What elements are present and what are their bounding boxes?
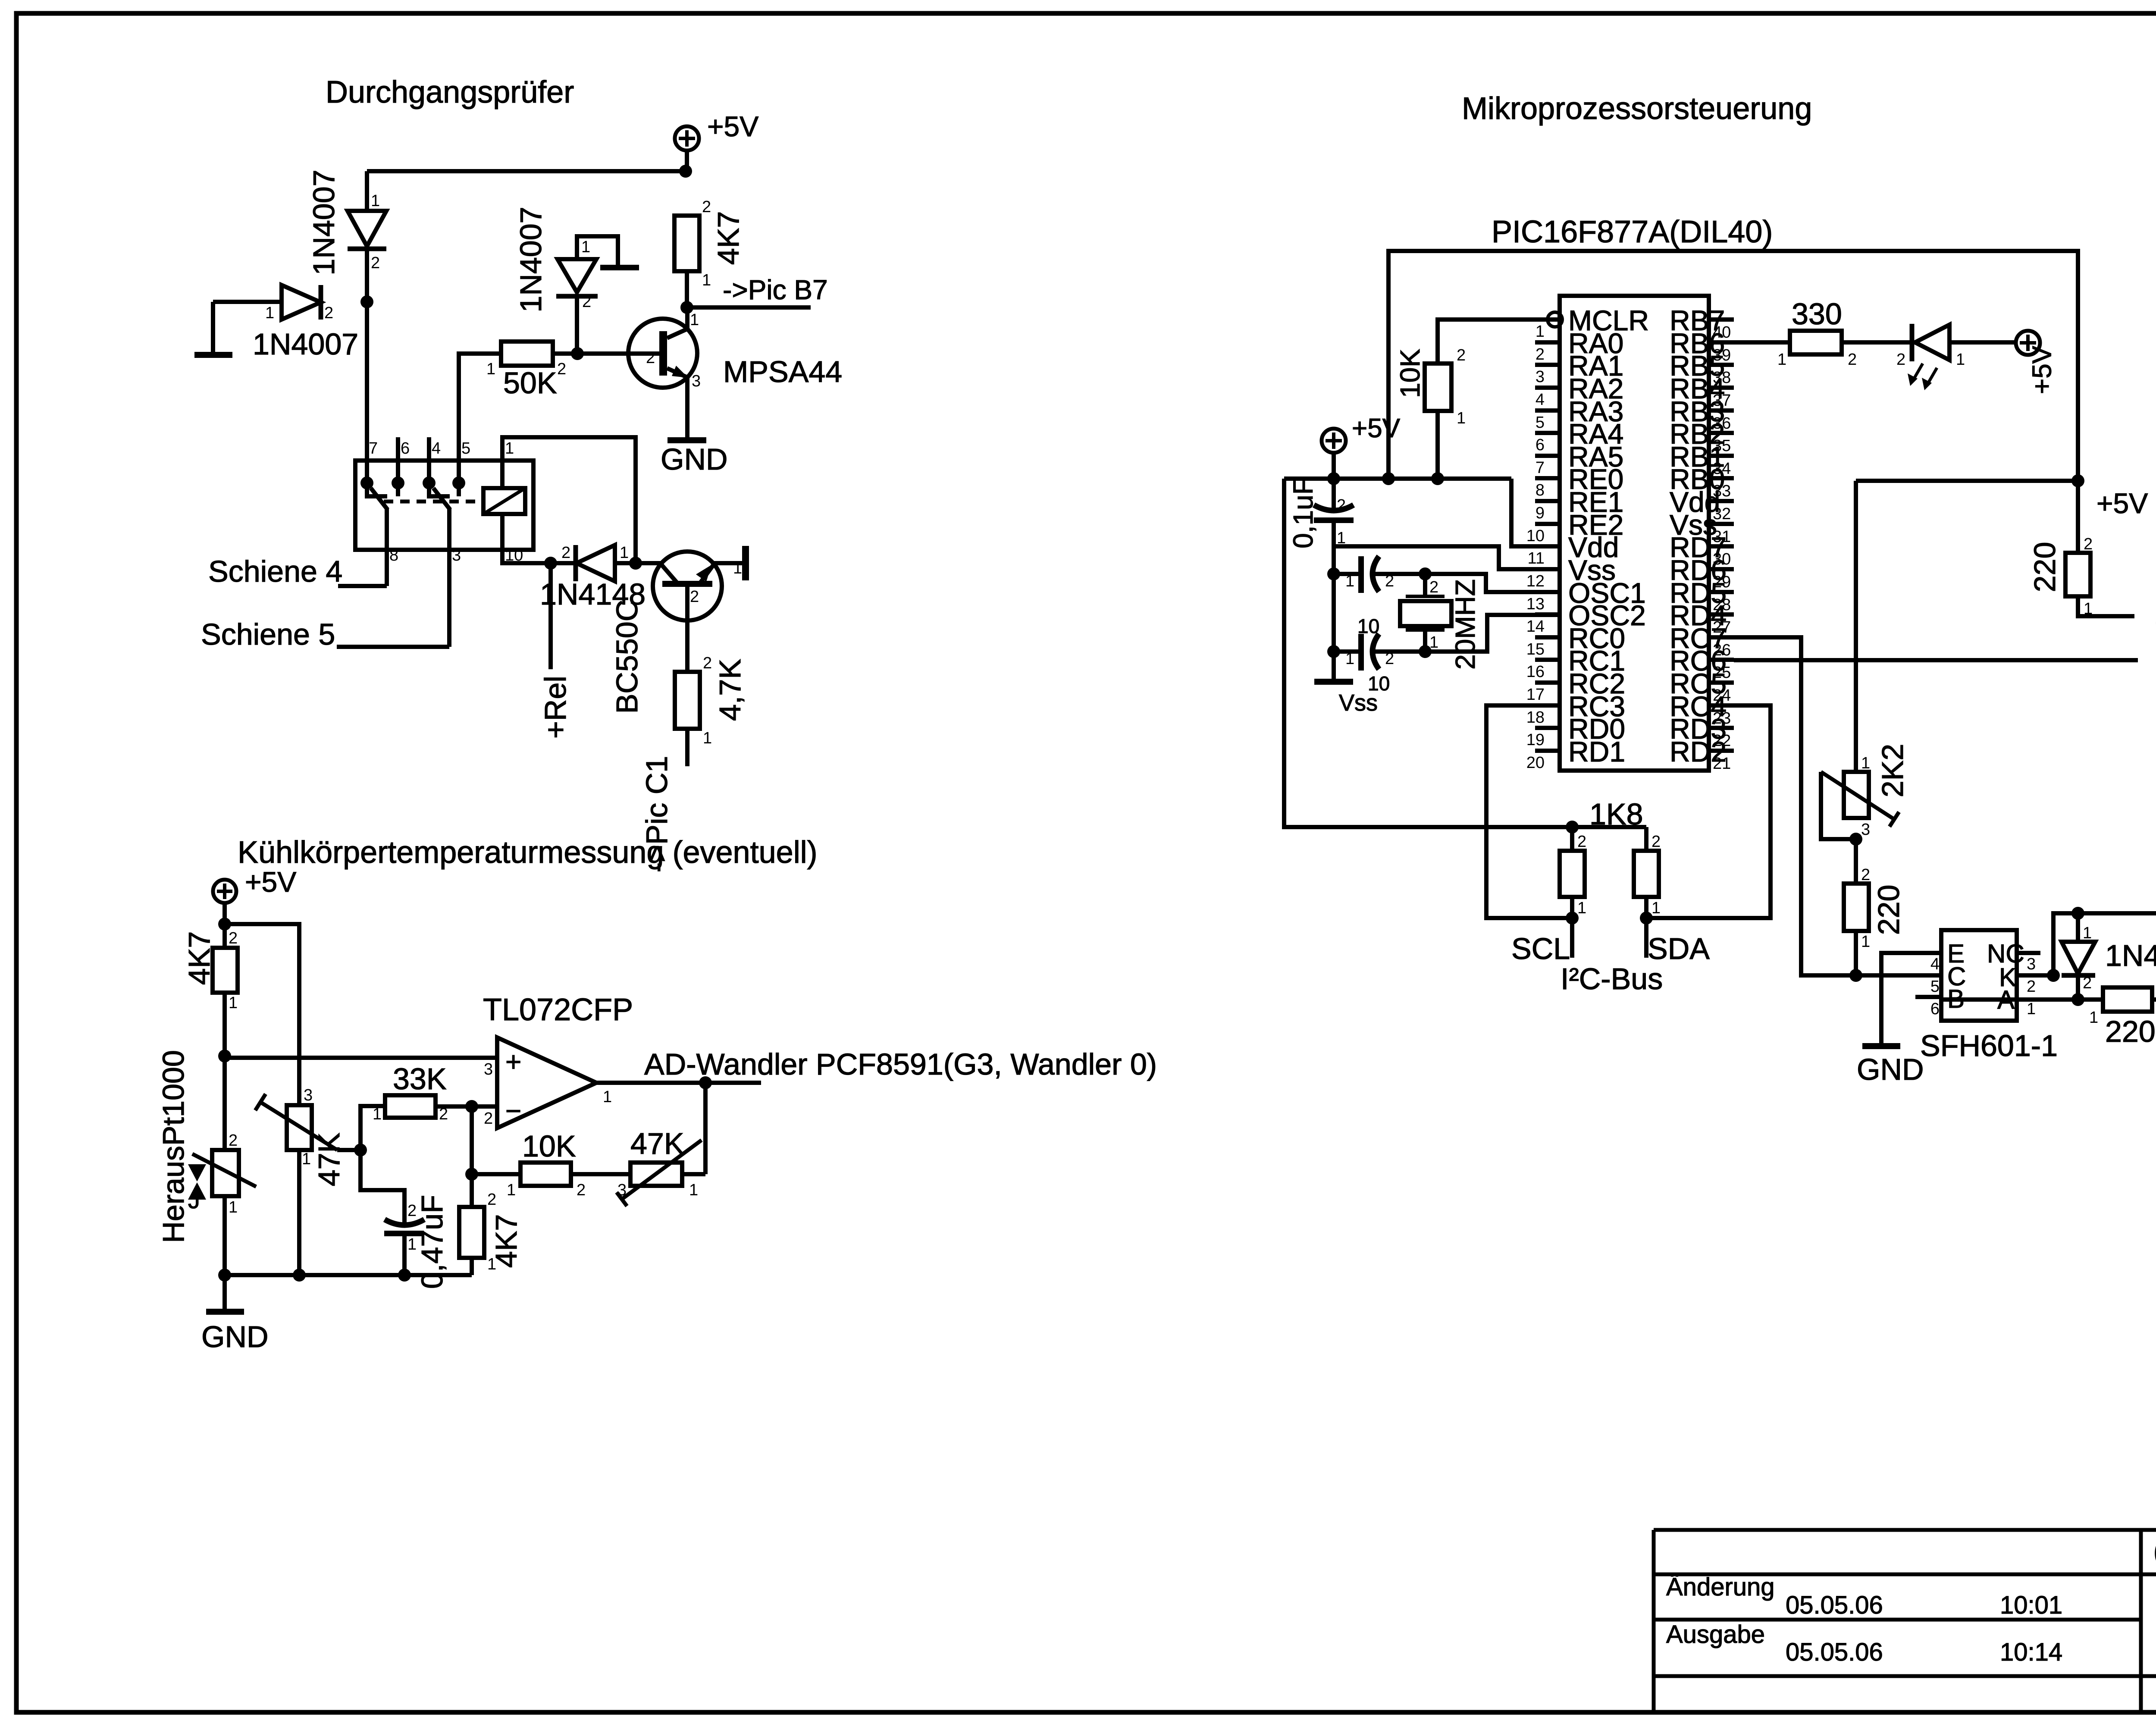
svg-text:1: 1 [690, 311, 699, 329]
title block date1 [1786, 1591, 2062, 1619]
relay pin10 wire [502, 514, 551, 563]
svg-text:0,47uF: 0,47uF [415, 1195, 449, 1289]
svg-text:1: 1 [505, 439, 514, 458]
section title Kuehlkoerpertemperaturmessung [238, 835, 818, 870]
wire RC4 to SDA [1646, 705, 1771, 918]
svg-text:5: 5 [461, 439, 470, 458]
label D4 1N4148 [540, 577, 646, 611]
svg-text:1: 1 [2027, 1000, 2036, 1018]
label 4 (midi out) [2156, 602, 2156, 635]
label R13 220 [2105, 1015, 2156, 1048]
svg-text:1N4007: 1N4007 [253, 327, 358, 361]
label R11 220 [2028, 542, 2062, 592]
svg-text:Vss: Vss [1339, 690, 1378, 716]
svg-text:10:14: 10:14 [2000, 1638, 2062, 1666]
svg-text:1K8: 1K8 [1589, 797, 1643, 831]
wire Schiene 4 [338, 584, 387, 588]
svg-text:1: 1 [1345, 650, 1354, 668]
svg-text:GND: GND [1857, 1053, 1924, 1086]
wire R12 to node [1854, 931, 1858, 975]
label R4 4K7 [182, 931, 216, 985]
transistor Q2 BC550C [653, 552, 742, 621]
svg-text:MPSA44: MPSA44 [723, 355, 842, 389]
svg-text:Schiene 5: Schiene 5 [201, 617, 335, 651]
svg-text:+5V: +5V [707, 110, 758, 142]
wire D4 cathode [551, 561, 576, 565]
power +5V symbol (PIC) [1322, 414, 1401, 453]
relay box [355, 461, 533, 550]
svg-text:2: 2 [703, 654, 712, 672]
svg-text:330: 330 [1792, 297, 1842, 331]
label Vss [1339, 690, 1378, 716]
label SCL [1511, 932, 1570, 965]
svg-text:3: 3 [692, 372, 701, 390]
svg-text:RD2: RD2 [1670, 736, 1727, 768]
wire MCLR [1438, 320, 1548, 364]
title block Ausgabe [1666, 1620, 1765, 1649]
resistor 1K8 (R8 SCL) [1560, 827, 1586, 917]
svg-text:4K7: 4K7 [711, 211, 745, 265]
svg-text:I²C-Bus: I²C-Bus [1561, 962, 1663, 996]
relay pin6 stub [396, 437, 400, 496]
label +Rel [539, 676, 572, 739]
node P1 wiper [354, 1144, 367, 1156]
svg-text:SFH601-1: SFH601-1 [1920, 1029, 2058, 1062]
wire 2K2 from +5V [1854, 481, 1858, 772]
svg-text:1: 1 [1861, 933, 1870, 951]
svg-text:1: 1 [2083, 924, 2092, 942]
U3 labels NC K A [1987, 939, 2024, 1014]
transistor Q1 MPSA44 [628, 311, 701, 390]
svg-text:3: 3 [452, 546, 461, 564]
node crystal top [1419, 567, 1432, 580]
svg-text:2: 2 [2084, 535, 2093, 553]
wire rail to Vdd [1511, 479, 1560, 546]
label 5 (midi out) [2156, 658, 2156, 691]
label ->Pic B7 [723, 274, 828, 305]
label ->Pic C1 [640, 756, 674, 872]
wire RC6 Midi5 [1734, 658, 2138, 662]
wire node to relay pin7 [365, 302, 369, 483]
label GND (Q1) [661, 442, 728, 476]
svg-text:5: 5 [1930, 978, 1940, 996]
node 2K2/220 [1849, 833, 1862, 846]
svg-text:20MHZ: 20MHZ [1450, 579, 1481, 670]
svg-text:33K: 33K [393, 1062, 447, 1096]
node SCL top [1566, 821, 1579, 834]
wire +5V branch [1856, 479, 2078, 483]
svg-text:1: 1 [507, 1181, 516, 1199]
wire P2 to output [682, 1172, 705, 1176]
svg-text:Schiene 4: Schiene 4 [208, 555, 342, 588]
title block grid [1654, 1530, 2156, 1713]
resistor 4K7 (R4) [213, 929, 238, 1012]
power +5V symbol (Kuehlkoerper) [213, 866, 296, 903]
label 33K [393, 1062, 447, 1096]
svg-text:1: 1 [486, 360, 495, 378]
label U1 TL072CFP [483, 993, 633, 1027]
label R5 10K [522, 1129, 576, 1163]
wire RB6 to R10 [1734, 340, 1790, 345]
capacitor 10 (C4) [1334, 634, 1394, 671]
wire RC3 to SCL [1486, 705, 1572, 918]
svg-text:1: 1 [229, 1198, 238, 1216]
resistor 10K (R7) [1425, 346, 1466, 427]
wire to diode D1 [365, 171, 369, 211]
potentiometer 2K2 (P3) [1821, 754, 1899, 839]
wire node to thermistor [222, 1056, 227, 1150]
label GND (Kuehlkoerper) [201, 1320, 269, 1354]
wire SDA [1644, 897, 1648, 958]
svg-text:1N4007: 1N4007 [307, 169, 341, 275]
svg-text:4: 4 [432, 439, 441, 458]
potentiometer 47K (P2) [617, 1140, 702, 1206]
label R10 330 [1792, 297, 1842, 331]
svg-text:47K: 47K [630, 1127, 684, 1160]
svg-text:2: 2 [1337, 496, 1346, 514]
relay switch 2 to Schiene 5 [447, 509, 451, 647]
label D5 1N4148 [2105, 939, 2156, 972]
svg-text:2: 2 [1457, 346, 1466, 364]
svg-text:2: 2 [371, 254, 380, 272]
svg-text:3: 3 [617, 1181, 627, 1199]
svg-text:18: 18 [1526, 708, 1545, 727]
wire Schiene 5 [337, 645, 449, 649]
node -input [465, 1100, 478, 1113]
wire C4 to crystal node [1375, 649, 1425, 654]
ground bar Vss [1314, 679, 1353, 685]
svg-text:2: 2 [1848, 351, 1857, 369]
svg-text:05.05.06: 05.05.06 [1786, 1638, 1883, 1666]
label D3 1N4007 [514, 207, 548, 312]
node cap gnd [398, 1269, 411, 1282]
svg-text:2: 2 [1577, 833, 1586, 851]
svg-text:1: 1 [1956, 351, 1965, 369]
relay switch 2 [429, 483, 450, 510]
svg-text:4: 4 [1930, 955, 1940, 973]
svg-text:13: 13 [1526, 595, 1545, 613]
svg-text:SDA: SDA [1648, 932, 1710, 965]
svg-text:1: 1 [1777, 351, 1786, 369]
relay pin1 wire [502, 437, 636, 563]
svg-text:GND: GND [201, 1320, 269, 1354]
title block Aenderung [1666, 1573, 1775, 1601]
node SDA [1640, 912, 1653, 925]
wire D3 top to chassis [577, 236, 618, 266]
wire 50K left to relay pin5 [459, 354, 501, 483]
wire +Rel [548, 563, 553, 669]
label P2 47K [630, 1127, 684, 1160]
resistor 50K [486, 342, 566, 378]
svg-text:7: 7 [1536, 459, 1545, 477]
wire +5V to rail [1332, 453, 1336, 479]
resistor 220 (R12) [1844, 866, 1870, 951]
svg-text:2: 2 [2083, 974, 2092, 992]
wire cap to Vss wire [1332, 523, 1336, 574]
wire opto E to GND [1881, 953, 1941, 1044]
svg-text:1: 1 [689, 1181, 698, 1199]
svg-text:2: 2 [690, 588, 699, 606]
node diode junction [360, 295, 373, 308]
relay switch 1 [367, 483, 388, 510]
svg-text:47K: 47K [312, 1133, 346, 1187]
relay pin labels [369, 439, 523, 564]
relay pin4 node [423, 476, 436, 489]
wire top rail [367, 169, 687, 173]
wire opto A to R13 [1941, 997, 2103, 1002]
op-amp U1 TL072CFP [484, 1037, 612, 1128]
title block Controler/sonst. [2154, 1533, 2156, 1574]
resistor 4,7K (R3) [675, 654, 712, 747]
LED D6 [1896, 324, 1965, 369]
svg-text:Durchgangsprüfer: Durchgangsprüfer [326, 75, 574, 110]
svg-text:6: 6 [1536, 436, 1545, 454]
wire Vss to bar [1332, 652, 1336, 680]
label Schiene 4 [208, 555, 342, 588]
svg-text:Ausgabe: Ausgabe [1666, 1620, 1765, 1649]
svg-text:+5V: +5V [1352, 414, 1401, 443]
svg-text:AD-Wandler PCF8591(G3, Wandler: AD-Wandler PCF8591(G3, Wandler 0) [644, 1047, 1157, 1081]
svg-text:15: 15 [1526, 640, 1545, 658]
resistor 220 (R11) [2065, 535, 2093, 618]
svg-text:1: 1 [302, 1150, 311, 1168]
wire R1 to node B7 [685, 271, 689, 307]
label 50K [503, 366, 557, 400]
diode D3 1N4007 (vertical) [556, 238, 598, 311]
IC U2 left pin labels [1568, 304, 1649, 768]
title block date2 [1786, 1638, 2062, 1666]
diode D5 1N4148 [2062, 913, 2095, 1000]
wire node to cap [360, 1150, 404, 1227]
resistor 1K8 (R9 SDA) [1634, 827, 1661, 917]
wire opto K [2017, 973, 2053, 978]
node +5V rail [1327, 472, 1340, 485]
wire D4 anode [615, 561, 661, 565]
node P1 gnd [293, 1269, 306, 1282]
wire Q2 emitter to terminal [713, 561, 742, 565]
node feedback left [465, 1168, 478, 1181]
wire D1 to node [365, 249, 369, 302]
wire 10K to 47K pot [571, 1172, 630, 1176]
label R12 220 [1872, 885, 1905, 935]
wire -input to feedback [470, 1106, 474, 1207]
resistor 4K7 (R6) [459, 1191, 496, 1273]
wire SCL [1570, 897, 1574, 958]
node +input [218, 1050, 231, 1062]
wire gnd rail [225, 1273, 472, 1277]
svg-text:BC550C: BC550C [610, 600, 644, 714]
node SCL [1566, 912, 1579, 925]
svg-text:Controler/sonst.: Controler/sonst. [2154, 1533, 2156, 1574]
diode D2 1N4007 (horizontal) [265, 285, 333, 322]
svg-text:4,7K: 4,7K [713, 659, 747, 721]
svg-text:05.05.06: 05.05.06 [1786, 1591, 1883, 1619]
svg-text:+5V: +5V [2027, 345, 2057, 394]
wire gnd stem [222, 1275, 227, 1310]
svg-text:2: 2 [577, 1181, 586, 1199]
svg-text:1: 1 [2089, 1009, 2098, 1027]
thermistor HerausPt1000 [192, 1131, 256, 1216]
label +5V (midi) [2096, 487, 2148, 519]
label R1 4K7 [711, 211, 745, 265]
relay dashed link [384, 500, 483, 504]
svg-text:220: 220 [2105, 1015, 2156, 1048]
ground bar (Q1) [667, 437, 706, 443]
crystal Q3 20MHZ [1400, 574, 1451, 652]
IC U2 PIC16F877A box [1560, 296, 1709, 771]
svg-text:3: 3 [1536, 368, 1545, 386]
label R3 4,7K [713, 659, 747, 721]
wire 50K to base [553, 351, 659, 356]
relay switch 1 to Schiene 4 [385, 509, 389, 586]
svg-text:PIC16F877A(DIL40): PIC16F877A(DIL40) [1492, 215, 1773, 249]
svg-text:2: 2 [702, 198, 711, 216]
wire feedback down [703, 1083, 708, 1174]
label P1 47K [312, 1133, 346, 1187]
svg-text:+5V: +5V [2096, 487, 2148, 519]
node +5V branch [218, 918, 231, 931]
svg-text:SCL: SCL [1511, 932, 1570, 965]
svg-text:1: 1 [265, 304, 274, 322]
svg-text:2: 2 [1651, 833, 1661, 851]
svg-text:1: 1 [373, 1105, 382, 1123]
wire opto NC stub [2017, 951, 2040, 955]
label GND (opto) [1857, 1053, 1924, 1086]
svg-text:1: 1 [1861, 754, 1870, 772]
wire OSC1 [1425, 574, 1560, 592]
diode D1 1N4007 (vertical) [348, 192, 386, 272]
label D2 1N4007 [253, 327, 358, 361]
label Q3 20MHZ [1450, 579, 1481, 670]
svg-text:+5V: +5V [245, 866, 296, 898]
wire Q1 collector [685, 307, 689, 329]
label U3 SFH601-1 [1920, 1029, 2058, 1062]
wire to 10K [472, 1172, 520, 1176]
svg-text:1: 1 [703, 729, 712, 747]
svg-text:10K: 10K [522, 1129, 576, 1163]
wire branch to 47K pot [225, 924, 299, 1105]
svg-text:Änderung: Änderung [1666, 1573, 1775, 1601]
label R7 10K [1395, 349, 1426, 398]
svg-text:HerausPt1000: HerausPt1000 [157, 1050, 190, 1243]
wire top loop [1388, 251, 2078, 481]
label 1K8 [1589, 797, 1643, 831]
svg-text:17: 17 [1526, 686, 1545, 704]
resistor 4K7 (R1) [674, 198, 711, 289]
svg-text:2: 2 [557, 360, 566, 378]
wire D2 anode to ground [211, 302, 215, 353]
junction top rail [679, 165, 692, 178]
node +5V midi [2071, 474, 2084, 487]
thermistor arrows J [188, 1164, 206, 1213]
svg-text:8: 8 [389, 546, 398, 564]
svg-text:1: 1 [581, 238, 590, 256]
relay pin5 node [452, 476, 465, 489]
svg-text:8: 8 [1536, 481, 1545, 499]
section title Mikroprozessorsteuerung [1462, 91, 1812, 126]
capacitor 0,47uF [384, 1202, 424, 1254]
IC U2 pin numbers [1526, 323, 1731, 773]
svg-text:3: 3 [1861, 821, 1870, 839]
svg-text:1: 1 [603, 1088, 612, 1106]
wire thermistor to gnd rail [222, 1196, 227, 1275]
wire node to 33K [360, 1106, 385, 1150]
node base/diode3 [571, 347, 584, 360]
svg-text:2: 2 [1861, 866, 1870, 884]
svg-text:9: 9 [1536, 504, 1545, 522]
wire R7 to rail [1435, 411, 1440, 479]
wire opto C pin [1856, 973, 1941, 978]
IC U2 pin stubs [1535, 320, 1734, 751]
label R6 4K7 [489, 1214, 523, 1268]
svg-text:3: 3 [304, 1086, 313, 1104]
svg-text:0,1uF: 0,1uF [1288, 478, 1319, 548]
wire R11 to Midi4 [2078, 596, 2134, 616]
svg-text:6: 6 [401, 439, 410, 458]
wire R13 to Midi4 [2152, 997, 2156, 1002]
resistor 330 (R10) [1777, 331, 1857, 369]
label C3 10 [1357, 615, 1379, 637]
svg-text:4K7: 4K7 [489, 1214, 523, 1268]
U3 pin numbers [1930, 955, 2036, 1018]
svg-text:2: 2 [1429, 578, 1438, 596]
wire cap rows vertical [1332, 574, 1336, 652]
capacitor 0,1uF [1314, 479, 1354, 547]
svg-text:10: 10 [505, 546, 523, 564]
svg-text:2: 2 [646, 349, 655, 367]
relay pin7 node [360, 476, 373, 489]
node ->Pic B7 [680, 301, 693, 314]
svg-text:10:01: 10:01 [2000, 1591, 2062, 1619]
svg-text:2: 2 [229, 929, 238, 947]
power +5V symbol (Durchgangspruefer) [675, 110, 758, 150]
svg-text:3: 3 [484, 1060, 493, 1078]
label SDA [1648, 932, 1710, 965]
svg-text:TL072CFP: TL072CFP [483, 993, 633, 1027]
U3 labels E C B [1947, 939, 1966, 1013]
svg-text:2: 2 [487, 1191, 496, 1209]
ground bar (D3) [600, 265, 639, 270]
svg-text:2: 2 [561, 544, 570, 562]
node cap1 row [1327, 567, 1340, 580]
node cap2 row [1327, 645, 1340, 658]
svg-text:1: 1 [702, 271, 711, 289]
svg-text:+Rel: +Rel [539, 676, 572, 739]
wire R6 to gnd rail [470, 1258, 474, 1275]
wire opto B stub [1915, 995, 1941, 999]
optocoupler U3 SFH601-1 box [1941, 930, 2017, 1021]
svg-text:1: 1 [371, 192, 380, 210]
wire +5V down [222, 903, 227, 948]
wire output [596, 1081, 761, 1085]
svg-text:1: 1 [1651, 899, 1661, 917]
node D4/Q2 [629, 557, 642, 570]
node output [699, 1076, 712, 1089]
relay pin6 node [392, 476, 404, 489]
IC U2 right pin labels [1670, 304, 1727, 768]
wire P1 bottom [297, 1150, 301, 1275]
svg-text:1N4007: 1N4007 [514, 207, 548, 312]
label 0,47uF [415, 1195, 449, 1289]
wire D3 to node [575, 296, 579, 354]
node gnd rail left [218, 1269, 231, 1282]
node relay/diode D4 [544, 557, 557, 570]
svg-text:220: 220 [1872, 885, 1905, 935]
wire R4 to node [222, 993, 227, 1056]
LED D6 arrows [1908, 364, 1937, 390]
svg-text:2: 2 [582, 293, 591, 311]
ground bar (Kuehlkoerper) [206, 1309, 244, 1315]
